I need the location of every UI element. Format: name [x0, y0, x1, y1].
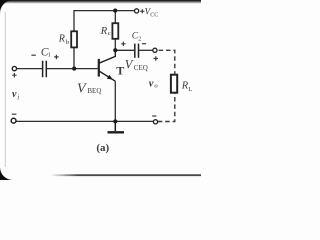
- svg-text:b: b: [66, 39, 69, 46]
- capacitor C2: [135, 44, 139, 58]
- resistor Rb: [71, 31, 77, 47]
- svg-text:CC: CC: [150, 13, 158, 19]
- terminal output bottom: [153, 120, 157, 124]
- polarity minus input: [12, 113, 17, 115]
- svg-text:i: i: [17, 93, 19, 101]
- wire top rail VCC: [74, 11, 135, 32]
- wire collector node to C2: [115, 49, 134, 51]
- svg-text:BEQ: BEQ: [87, 87, 101, 95]
- resistor RL: [171, 75, 177, 93]
- emitter arrow: [107, 75, 113, 80]
- polarity plus C2: [121, 42, 125, 46]
- polarity minus C2: [142, 43, 146, 45]
- wire input terminal to C1: [17, 68, 42, 70]
- polarity plus output: [154, 56, 158, 60]
- svg-text:L: L: [188, 86, 192, 93]
- wire emitter to ground rail: [114, 81, 116, 121]
- base bar: [98, 59, 100, 77]
- emitter lead: [99, 71, 115, 81]
- capacitor C1: [43, 61, 47, 77]
- svg-text:V: V: [125, 57, 134, 71]
- resistor Rc: [112, 23, 118, 39]
- svg-text:R: R: [58, 33, 65, 44]
- terminal input bottom: [11, 118, 16, 123]
- terminal input top: [12, 66, 16, 70]
- svg-text:T: T: [116, 64, 124, 78]
- wire Rb bottom to base node: [73, 47, 75, 68]
- wire bottom rail: [16, 120, 153, 122]
- label +VCC: [140, 9, 144, 13]
- wire dashed RL bottom to output bottom: [158, 93, 175, 122]
- node top rail junction: [113, 9, 117, 13]
- svg-text:R: R: [100, 26, 108, 37]
- svg-text:v: v: [149, 79, 154, 90]
- wire Rc to top rail: [114, 11, 116, 24]
- wire dashed output to RL top: [159, 50, 175, 74]
- wire C2 to output terminal: [139, 49, 153, 51]
- wire Rc to collector: [114, 39, 116, 51]
- transistor T: [99, 50, 116, 81]
- polarity plus input: [12, 73, 16, 77]
- ground: [108, 121, 125, 132]
- collector lead: [99, 50, 115, 63]
- node ground junction: [113, 119, 117, 123]
- svg-text:2: 2: [138, 36, 141, 42]
- polarity minus C1: [31, 54, 35, 56]
- wire C1 to base: [47, 68, 98, 70]
- node collector junction: [113, 48, 117, 52]
- svg-text:c: c: [108, 30, 111, 37]
- svg-text:CEQ: CEQ: [134, 64, 148, 72]
- polarity minus output: [152, 115, 156, 117]
- svg-text:(a): (a): [96, 142, 109, 154]
- node base junction: [72, 67, 76, 71]
- polarity plus C1: [54, 55, 58, 59]
- terminal VCC: [135, 9, 139, 13]
- svg-text:1: 1: [48, 51, 51, 58]
- terminal output top: [153, 48, 157, 52]
- svg-text:V: V: [77, 82, 87, 97]
